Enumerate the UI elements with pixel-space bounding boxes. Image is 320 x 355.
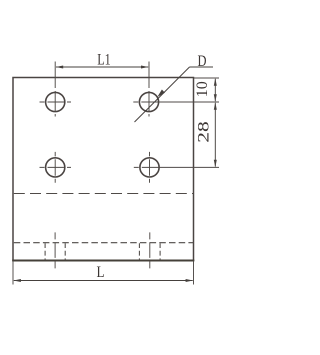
hole H3 bottom-left (46, 158, 65, 177)
leader D horizontal shoulder (190, 66, 214, 68)
extension line left for L (12, 261, 14, 285)
phantom dashed line across plate (14, 193, 194, 195)
hole H1 top-left (46, 92, 65, 111)
svg-text:L1: L1 (97, 51, 111, 68)
svg-text:28: 28 (195, 121, 212, 143)
hole H2 top-right (139, 92, 158, 111)
dimension L1 line with arrows (56, 66, 148, 68)
leader D diagonal through H2 (135, 67, 190, 122)
dimension 28 vertical line with arrows (214, 103, 216, 167)
hidden slot right: vertical hidden edges (139, 243, 160, 260)
hidden slot right: centerline (149, 232, 151, 268)
svg-text:L: L (97, 264, 105, 281)
svg-text:D: D (198, 53, 207, 70)
extension line top edge right (194, 77, 220, 79)
dimension 10 vertical line with arrows (214, 79, 216, 101)
centerline H1 horizontal (40, 101, 72, 103)
centerline H4 horizontal + extension line to 28 dim (134, 166, 219, 168)
extension line right for L (193, 261, 195, 285)
centerline H3 vertical (54, 152, 56, 183)
svg-text:10: 10 (194, 81, 211, 97)
centerline H3 horizontal (40, 166, 72, 168)
plate bottom edge (thick) (12, 260, 194, 262)
leader D arrowhead at circle edge (157, 90, 165, 98)
plate outline (13, 78, 194, 261)
dimension L line with arrows (14, 280, 193, 282)
hidden line across plate (lower) (14, 242, 194, 244)
hidden slot left: centerline (54, 232, 56, 268)
centerline H2 vertical (148, 62, 150, 117)
centerline H2 horizontal + extension line to 10/28 dims (133, 101, 219, 103)
centerline H4 vertical (149, 152, 151, 183)
hole H4 bottom-right (140, 158, 159, 177)
centerline H1 vertical (54, 62, 56, 117)
hidden slot left: vertical hidden edges (45, 243, 65, 260)
